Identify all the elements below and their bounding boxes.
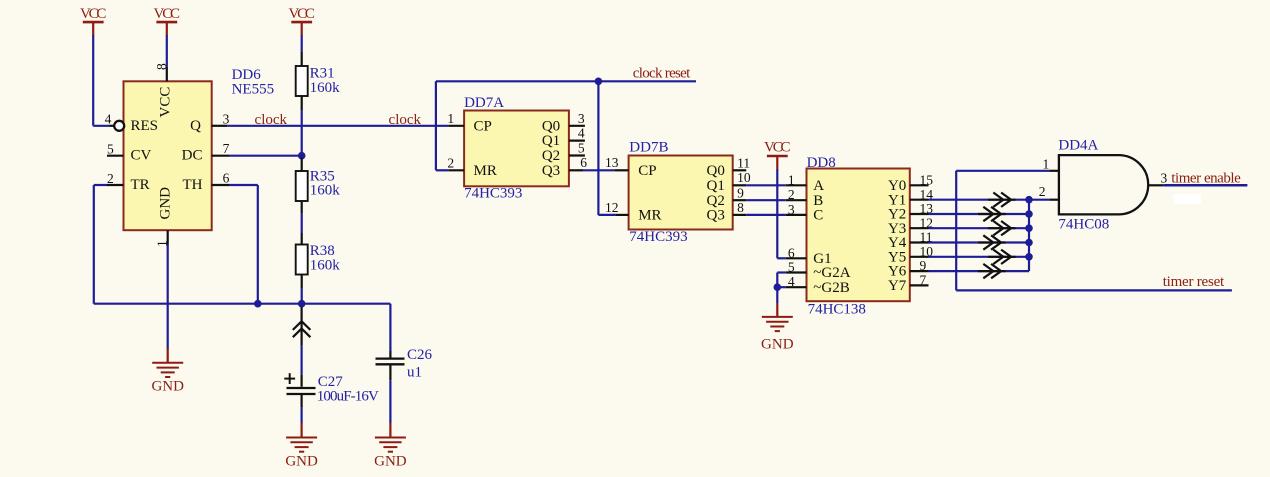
svg-text:6: 6 (580, 155, 587, 170)
svg-text:160k: 160k (310, 80, 341, 96)
pin names DD8 (813, 178, 906, 296)
svg-text:CP: CP (474, 118, 492, 134)
svg-text:Q1: Q1 (542, 133, 560, 149)
wire R31 to node (crosses clock) (301, 96, 303, 111)
svg-text:4: 4 (105, 111, 112, 126)
svg-text:clock: clock (255, 112, 288, 128)
wire NE555 pin1 down to GND (167, 245, 169, 350)
wire bus to DD4A pin2 (1029, 199, 1049, 201)
svg-text:9: 9 (737, 186, 744, 201)
wire DD7B Q1 to DD8 A (746, 184, 786, 186)
svg-text:10: 10 (737, 170, 751, 185)
wire DD7B Q3 to DD8 C (746, 214, 786, 216)
pin stubs DD7B (614, 170, 746, 215)
svg-text:2: 2 (788, 187, 795, 202)
capacitor C27 plates (287, 387, 316, 389)
wire timer_enable output (1163, 184, 1247, 187)
white patch (1174, 194, 1202, 204)
wire junction down to GND (776, 287, 778, 303)
pin names DD7B (638, 163, 725, 224)
wire clock reset down to DD7A MR (435, 81, 437, 170)
resistor R31 (296, 66, 308, 96)
svg-text:VCC: VCC (288, 6, 315, 22)
svg-text:C: C (813, 208, 823, 224)
node junction TH at bus (254, 300, 262, 308)
svg-text:Q: Q (190, 118, 201, 134)
wire DD7A Q3 to DD7B CP (583, 169, 614, 171)
pin numbers DD7B (605, 155, 751, 215)
svg-text:4: 4 (578, 126, 585, 141)
pin numbers NE555 (105, 63, 230, 247)
svg-text:12: 12 (605, 200, 619, 215)
wires Y1..Y6 to wired-AND bus (929, 200, 1030, 271)
ground GND under NE555 (151, 348, 184, 394)
svg-text:~G2A: ~G2A (813, 265, 850, 281)
wire C26 to GND (389, 364, 391, 380)
pin stubs DD8 right (910, 185, 929, 285)
wire node to R35 (301, 158, 303, 171)
svg-text:u1: u1 (407, 365, 422, 381)
svg-text:A: A (813, 178, 824, 194)
wire clock reset horizontal (436, 80, 696, 82)
wire DC pin7 to resistor divider node (229, 155, 302, 157)
svg-text:GND: GND (151, 379, 184, 395)
wire VCC3 to R31 (301, 35, 303, 51)
svg-text:timer reset: timer reset (1163, 274, 1225, 290)
svg-text:5: 5 (788, 260, 795, 275)
svg-text:DD4A: DD4A (1058, 137, 1098, 153)
svg-text:NE555: NE555 (232, 82, 275, 98)
svg-text:5: 5 (107, 141, 114, 156)
svg-text:DD6: DD6 (232, 67, 262, 83)
svg-text:4: 4 (788, 274, 795, 289)
svg-text:160k: 160k (310, 257, 341, 273)
svg-text:DD7B: DD7B (629, 140, 668, 156)
svg-text:VCC: VCC (158, 87, 174, 118)
IC DD7B 74HC393 body (629, 156, 733, 230)
svg-text:clock: clock (389, 112, 422, 128)
svg-text:GND: GND (761, 337, 794, 353)
svg-text:3: 3 (578, 111, 585, 126)
svg-text:Q1: Q1 (707, 178, 725, 194)
IC DD7A 74HC393 body (464, 111, 569, 187)
svg-text:DD7A: DD7A (464, 95, 504, 111)
svg-text:CV: CV (131, 148, 152, 164)
svg-text:~G2B: ~G2B (813, 280, 849, 296)
gate DD4A 74HC08 AND (1059, 155, 1148, 214)
svg-text:VCC: VCC (80, 6, 107, 22)
svg-text:8: 8 (737, 200, 744, 215)
wire clock reset down to DD7B MR (597, 81, 599, 215)
svg-text:B: B (813, 193, 823, 209)
svg-text:1: 1 (1043, 156, 1050, 171)
wire TH pin6 right and down to bottom node (229, 184, 258, 186)
pin stubs DD7A (448, 126, 585, 171)
svg-text:74HC138: 74HC138 (808, 302, 866, 318)
svg-text:2: 2 (447, 156, 454, 171)
svg-text:9: 9 (920, 258, 927, 273)
svg-text:74HC393: 74HC393 (629, 229, 687, 245)
wire bus down to C27 (301, 304, 303, 307)
svg-text:clock reset: clock reset (633, 66, 691, 82)
svg-text:MR: MR (474, 163, 497, 179)
pin names DD7A (474, 118, 561, 179)
node junction clock reset branch (595, 78, 603, 86)
wire R38 to bottom node (301, 275, 303, 289)
wire timer_reset vertical top to DD4A pin1 (956, 170, 1049, 172)
wire VCC1 down to RES bubble (92, 35, 94, 126)
power symbol VCC (feeds DD8 G1) (764, 140, 791, 169)
svg-text:GND: GND (374, 454, 407, 470)
wire VCC2 down to pin 8 (166, 35, 168, 67)
wire C27 to GND (301, 394, 303, 408)
svg-text:13: 13 (605, 155, 619, 170)
svg-text:1: 1 (447, 111, 454, 126)
svg-text:DC: DC (182, 148, 203, 164)
svg-text:TR: TR (131, 177, 150, 193)
svg-text:Q0: Q0 (707, 163, 725, 179)
pin numbers DD8 (788, 172, 933, 289)
svg-text:74HC393: 74HC393 (464, 185, 522, 201)
IC DD6 NE555 body (124, 81, 212, 230)
svg-text:Q3: Q3 (707, 208, 725, 224)
svg-text:Q0: Q0 (542, 118, 560, 134)
svg-text:5: 5 (578, 141, 585, 156)
svg-text:6: 6 (223, 170, 230, 185)
wire bottom node bus TR-TH-R38-C27-C26 (94, 303, 391, 305)
node junction DC/R31/R35 (298, 152, 306, 160)
svg-text:1: 1 (788, 172, 795, 187)
wire DD7B Q2 to DD8 B (746, 199, 786, 201)
power symbol VCC (feeds R31) (288, 6, 315, 35)
svg-text:GND: GND (285, 454, 318, 470)
svg-text:7: 7 (920, 273, 927, 288)
svg-text:11: 11 (737, 156, 750, 171)
svg-text:VCC: VCC (764, 140, 791, 156)
svg-text:DD8: DD8 (807, 155, 836, 171)
pin stubs NE555 (107, 67, 229, 245)
svg-text:3: 3 (788, 202, 795, 217)
pin stubs DD4A (1049, 170, 1059, 172)
svg-text:2: 2 (1039, 184, 1046, 199)
svg-text:Y7: Y7 (888, 278, 907, 294)
power symbol VCC (net VCC, feeds NE555 RES) (80, 6, 107, 35)
svg-text:GND: GND (158, 187, 174, 220)
wire R35 to R38 (301, 201, 303, 213)
svg-text:3: 3 (1161, 171, 1168, 186)
svg-text:2: 2 (107, 171, 114, 186)
resistor R38 (296, 245, 308, 275)
wire G2A tied to G2B (777, 271, 786, 273)
svg-text:TH: TH (183, 177, 203, 193)
svg-text:RES: RES (131, 118, 159, 134)
wire bus corner down to C26 (389, 304, 391, 351)
capacitor C27 plus sign (284, 378, 295, 380)
svg-text:timer enable: timer enable (1171, 171, 1241, 187)
ground GND under C27 (285, 423, 318, 470)
svg-text:15: 15 (920, 172, 934, 187)
marker double chevron up on C27 branch (293, 321, 311, 337)
pin 4 bubble (RES) (114, 121, 124, 131)
svg-text:Q2: Q2 (542, 148, 560, 164)
wire TR pin2 left and down to bottom node (94, 184, 107, 186)
marker chevrons on Y1..Y6 (978, 193, 1016, 279)
ground GND under DD8 enables (776, 303, 778, 317)
pin numbers DD7A (447, 111, 587, 171)
power symbol VCC (feeds NE555 pin 8) (154, 6, 181, 35)
node junction R38/C27 at bus (298, 300, 306, 308)
wire clock: NE555 Q to DD7A CP (227, 125, 448, 127)
svg-text:MR: MR (638, 208, 661, 224)
pin stubs DD8 left (786, 185, 807, 287)
svg-text:7: 7 (223, 141, 230, 156)
pin names NE555 (131, 87, 203, 220)
svg-text:VCC: VCC (154, 6, 181, 22)
wire timer_reset vertical (955, 171, 957, 291)
IC DD8 74HC138 body (807, 169, 910, 302)
node junctions on bus (1025, 196, 1033, 204)
wire vertical wired-AND bus (1028, 200, 1030, 271)
svg-text:6: 6 (788, 245, 795, 260)
svg-text:100uF-16V: 100uF-16V (317, 389, 379, 405)
svg-text:74HC08: 74HC08 (1058, 217, 1109, 233)
svg-text:160k: 160k (310, 183, 341, 199)
ground GND under C26 (374, 423, 407, 470)
svg-text:CP: CP (638, 163, 656, 179)
node junction G2B/GND (774, 283, 782, 291)
svg-text:C27: C27 (318, 374, 344, 390)
svg-text:C26: C26 (407, 347, 433, 363)
svg-text:Q2: Q2 (707, 193, 725, 209)
capacitor C26 plates (376, 357, 405, 359)
resistor R35 (296, 171, 308, 201)
wire timer_reset horizontal (956, 289, 1232, 291)
svg-text:Q3: Q3 (542, 163, 560, 179)
svg-text:3: 3 (223, 111, 230, 126)
wire VCC4 down to DD8 G1 (crosses A,B,C wires) (776, 169, 778, 258)
